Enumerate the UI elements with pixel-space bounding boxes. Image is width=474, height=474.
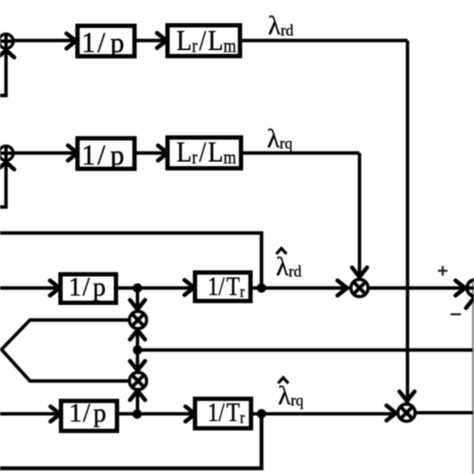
- svg-text:1/p: 1/p: [82, 28, 125, 59]
- svg-text:1/p: 1/p: [82, 141, 125, 172]
- svg-text:λrq: λrq: [267, 124, 293, 153]
- svg-text:λrd: λrd: [268, 11, 294, 40]
- svg-text:1/Tr: 1/Tr: [208, 273, 246, 301]
- svg-text:1/p: 1/p: [69, 273, 106, 302]
- svg-text:1/p: 1/p: [69, 399, 106, 428]
- svg-text:λrd: λrd: [276, 252, 302, 281]
- svg-text:λrq: λrq: [278, 381, 304, 410]
- svg-text:1/Tr: 1/Tr: [208, 399, 246, 427]
